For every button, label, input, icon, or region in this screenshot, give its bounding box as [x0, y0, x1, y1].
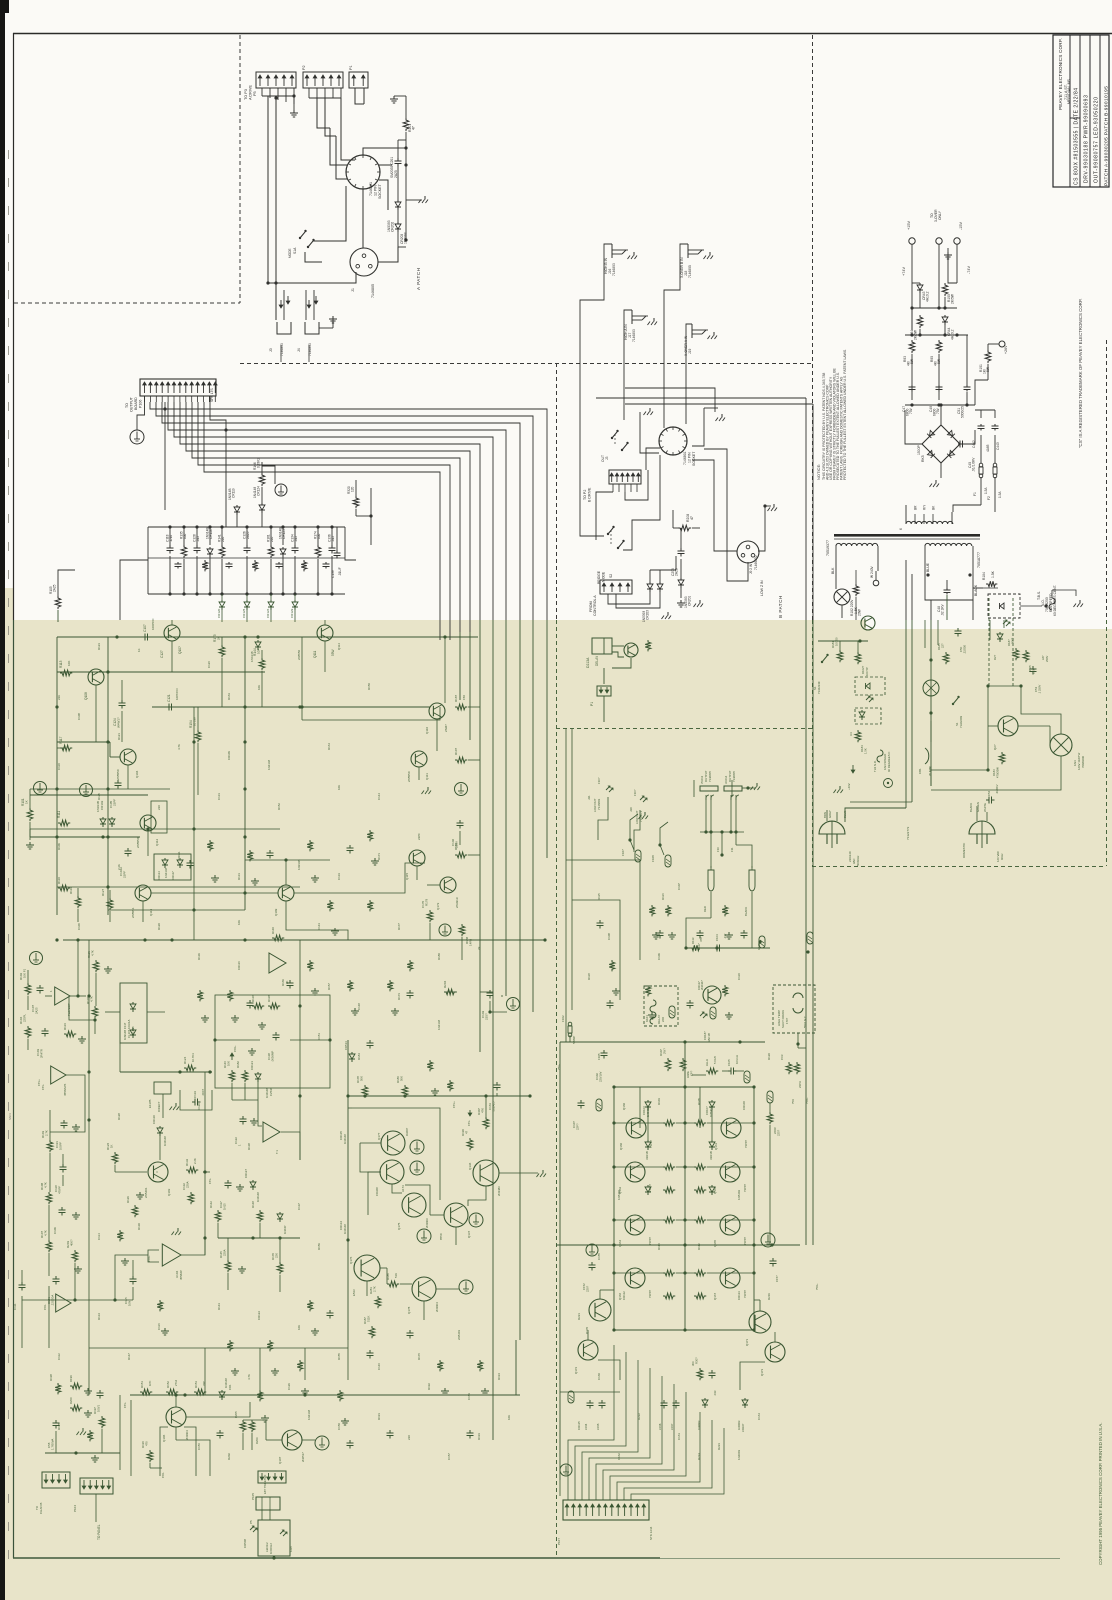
svg-text:Q103: Q103	[167, 1188, 171, 1196]
svg-text:C151: C151	[317, 1033, 321, 1040]
svg-text:Q107: Q107	[278, 1456, 282, 1464]
svg-text:2A25: 2A25	[35, 1007, 39, 1014]
resistor R184b	[855, 730, 861, 742]
ground arrow at J19	[713, 332, 715, 336]
wire P1 stub down	[603, 696, 605, 722]
svg-text:CR102: CR102	[100, 800, 104, 810]
svg-text:Q111: Q111	[313, 650, 317, 658]
ground fan left	[839, 786, 841, 790]
svg-text:220A: 220A	[186, 1181, 190, 1188]
svg-text:R105: R105	[1028, 665, 1032, 672]
wire +15 rail down	[911, 244, 913, 330]
svg-text:R143: R143	[217, 1303, 221, 1310]
svg-text:22K: 22K	[57, 695, 61, 700]
capacitor C140	[459, 820, 461, 823]
svg-text:.015: .015	[331, 536, 335, 542]
ground arrow left cluster	[82, 1428, 84, 1432]
ground arrow at J18	[709, 252, 711, 256]
resistor R148	[257, 1210, 263, 1222]
wires into plug 1	[826, 810, 828, 821]
svg-text:R119: R119	[757, 943, 761, 950]
svg-text:R204: R204	[443, 980, 447, 988]
svg-text:C107: C107	[677, 883, 681, 890]
wire R208 leads	[673, 527, 678, 529]
resistor R93 4K/5W	[909, 340, 915, 353]
resistor R196 470	[147, 1450, 153, 1462]
svg-text:220: 220	[407, 1435, 411, 1440]
op-amp U104	[162, 1244, 181, 1266]
svg-text:CB1: CB1	[918, 768, 922, 774]
mid vertical x245	[244, 637, 246, 910]
diode block CL107	[120, 983, 147, 1043]
transformer core bar	[834, 534, 980, 537]
wires Q136 Q137	[468, 1186, 486, 1206]
long rail y1245	[556, 1244, 800, 1246]
svg-text:K101: K101	[645, 1015, 649, 1022]
svg-text:F2: F2	[987, 496, 991, 500]
svg-text:R163: R163	[227, 693, 231, 700]
svg-text:470PF: 470PF	[58, 1185, 62, 1194]
svg-text:1N4148: 1N4148	[163, 1136, 167, 1146]
ground under R101	[29, 842, 31, 845]
svg-text:1N4003: 1N4003	[737, 1449, 741, 1460]
svg-text:30K?: 30K?	[1011, 637, 1015, 644]
ground below connector bundle	[293, 96, 295, 110]
transistor Q103 driver	[148, 1162, 168, 1182]
svg-text:50K: 50K	[400, 1076, 404, 1081]
svg-text:73P8?: 73P8?	[648, 1236, 652, 1245]
wire jacks down to socket area	[580, 244, 612, 418]
svg-text:+26V: +26V	[1004, 345, 1008, 354]
svg-text:R138: R138	[247, 1143, 251, 1150]
resistor R182b	[855, 652, 861, 664]
svg-text:5 AMP: 5 AMP	[572, 1036, 576, 1044]
svg-text:71322772: 71322772	[906, 826, 910, 840]
ground right of R115	[107, 966, 109, 969]
svg-text:7146805: 7146805	[708, 771, 712, 782]
svg-text:C2536: C2536	[269, 1087, 273, 1096]
transistor Q173b	[765, 1342, 785, 1362]
resistor R185c	[943, 652, 949, 664]
wires right cluster	[436, 719, 438, 751]
svg-text:.247: .247	[723, 933, 727, 939]
svg-text:R219: R219	[767, 1293, 771, 1300]
block E117 DIRECT	[154, 1082, 171, 1094]
svg-text:J9 2 IN: J9 2 IN	[749, 563, 753, 574]
dashed separator vertical A-patch left	[239, 35, 241, 303]
svg-text:R150: R150	[367, 683, 371, 690]
crossover top rail	[148, 526, 345, 528]
wire XLR loop to socket	[692, 460, 737, 551]
jack HIGH A IN J17	[632, 315, 648, 317]
capacitor C159	[711, 1370, 713, 1373]
terminal -15V	[954, 238, 960, 244]
svg-text:R184: R184	[982, 572, 986, 580]
svg-text:20W: 20W	[858, 608, 862, 616]
svg-text:15V+: 15V+	[233, 1045, 237, 1052]
svg-text:C105: C105	[727, 1059, 731, 1066]
svg-text:10.7K1: 10.7K1	[191, 1053, 195, 1062]
capacitor C442 4A83	[980, 424, 982, 426]
svg-text:R155: R155	[337, 1353, 341, 1360]
transistor Q178	[412, 1277, 436, 1301]
wires CB1	[930, 721, 932, 742]
resistor R183 dropper	[853, 584, 859, 596]
svg-text:CR124: CR124	[257, 486, 261, 496]
svg-text:CHAN B: CHAN B	[39, 1503, 43, 1514]
resistor R204	[444, 989, 456, 995]
svg-text:J3: J3	[269, 348, 273, 352]
svg-text:70518777: 70518777	[977, 552, 981, 568]
svg-text:CR107: CR107	[741, 1423, 745, 1432]
test point below Q175	[417, 1229, 431, 1243]
ground at C117b	[239, 1184, 241, 1187]
svg-text:F11: F11	[730, 847, 734, 852]
wire CR43-R100 row	[912, 282, 920, 284]
svg-text:C129: C129	[287, 1383, 291, 1390]
diode CR203b 1N5393	[649, 582, 651, 584]
op-amp U102A	[51, 1066, 66, 1084]
svg-text:8550: 8550	[439, 1233, 443, 1240]
svg-text:2N3486: 2N3486	[497, 1186, 501, 1196]
svg-text:2W?: 2W?	[663, 1048, 667, 1054]
svg-text:7146801: 7146801	[683, 451, 687, 465]
resistor R117	[60, 745, 72, 751]
svg-text:P5: P5	[253, 91, 257, 96]
svg-text:120: 120	[351, 486, 355, 492]
svg-text:SOCKET: SOCKET	[378, 183, 382, 199]
channel B cap scatter upper	[599, 920, 601, 923]
svg-text:F108: F108	[651, 855, 655, 862]
svg-text:1N15: 1N15	[223, 1203, 227, 1210]
svg-text:1N4148: 1N4148	[343, 1134, 347, 1144]
resistor R197	[99, 1416, 105, 1428]
svg-text:CR129: CR129	[290, 608, 294, 618]
svg-text:C53: C53	[1034, 686, 1038, 692]
transistor Q171 lower right	[749, 1311, 771, 1333]
svg-text:2A25: 2A25	[394, 170, 398, 178]
svg-text:4558AP: 4558AP	[179, 1270, 183, 1280]
channel A vertical x205	[204, 1072, 206, 1255]
high temp shutdown dashed box	[773, 985, 815, 1033]
svg-text:CR514: CR514	[344, 1041, 348, 1050]
capacitor C58	[55, 1420, 57, 1423]
wire box around socket	[625, 388, 715, 412]
wires secondary left	[835, 546, 837, 560]
svg-text:7146805: 7146805	[371, 284, 375, 298]
opto U3 dashed box	[855, 708, 881, 724]
resistor R320 120	[353, 496, 359, 508]
fuse F1 1.5A	[979, 463, 983, 467]
dashed separator horizontal under A-patch	[240, 363, 812, 365]
svg-text:P5: P5	[249, 1520, 253, 1524]
svg-text:Q175: Q175	[397, 1222, 401, 1230]
fuse F108 with pill	[658, 843, 661, 846]
svg-text:R153: R153	[194, 1381, 198, 1388]
ground at C109	[75, 1212, 77, 1215]
channel A vertical x89	[88, 940, 90, 1348]
svg-text:Q115: Q115	[405, 873, 409, 880]
terminal circle right	[761, 1233, 775, 1247]
svg-text:75V: 75V	[791, 1099, 795, 1104]
svg-text:1.5K: 1.5K	[864, 748, 868, 754]
svg-text:CR106: CR106	[742, 1101, 746, 1110]
channel A mid-right resistor pair R136 R118	[252, 1003, 264, 1009]
thermal switch arcs	[793, 993, 803, 998]
wires secondary right	[924, 546, 926, 558]
svg-text:Q114: Q114	[337, 643, 341, 650]
connector output board B	[563, 1500, 649, 1520]
resistor R146	[229, 1070, 235, 1082]
svg-text:BLACK: BLACK	[974, 584, 978, 596]
relay coil	[650, 1000, 656, 1012]
svg-text:NOTICE:: NOTICE:	[816, 464, 821, 480]
capacitor C443 4A83	[994, 424, 996, 426]
svg-text:10PFCO: 10PFCO	[175, 688, 179, 700]
svg-text:75V: 75V	[936, 407, 940, 414]
wire bundle to socket area	[317, 98, 330, 128]
svg-text:2N6517: 2N6517	[301, 1452, 305, 1462]
svg-text:STK 1244: STK 1244	[649, 1526, 653, 1540]
diode CR121	[257, 1072, 259, 1074]
svg-text:100PF: 100PF	[59, 1141, 63, 1150]
svg-text:10K P1: 10K P1	[23, 968, 27, 978]
svg-text:RK5: RK5	[921, 455, 925, 462]
svg-text:.01 6KV: .01 6KV	[995, 784, 999, 794]
svg-text:P1: P1	[590, 702, 594, 706]
resistor R95 4K/5W	[936, 340, 942, 353]
component D213A	[592, 638, 612, 654]
extra grounds scatter channel A	[214, 875, 216, 878]
svg-text:Q111: Q111	[425, 773, 429, 780]
svg-text:.02 1KV: .02 1KV	[941, 603, 945, 616]
ground at socket B	[721, 414, 723, 418]
jack J4 7146803	[308, 300, 310, 308]
capacitor C138	[275, 1032, 277, 1035]
resistor R183c 470 20W	[999, 752, 1005, 764]
wire Q201 to P1 pin	[612, 658, 631, 668]
svg-text:75V+: 75V+	[815, 1283, 819, 1290]
resistor R182	[242, 1070, 248, 1082]
bus drop wires continue green into channel B	[805, 620, 807, 1032]
zener CR45	[1000, 603, 1005, 609]
svg-text:R171: R171	[377, 853, 381, 860]
svg-text:C131: C131	[217, 793, 221, 800]
svg-text:Q176: Q176	[349, 1256, 353, 1264]
svg-text:2.7K: 2.7K	[373, 1286, 377, 1292]
svg-text:CR113: CR113	[737, 1291, 741, 1300]
svg-text:1N5402: 1N5402	[617, 1189, 621, 1200]
svg-text:.022A25: .022A25	[492, 1101, 496, 1112]
connector TO P2 B DRIVE	[609, 470, 641, 484]
center vertical channel B	[684, 1042, 686, 1330]
svg-text:15V+: 15V+	[452, 1101, 456, 1108]
jack stub wires to dashed boundary A patch	[280, 345, 282, 362]
svg-text:R118: R118	[587, 973, 591, 980]
svg-text:CR109: CR109	[227, 751, 231, 760]
terminal bottom left	[560, 1464, 572, 1476]
ground arrow at J16	[633, 252, 635, 256]
test point at Q177	[410, 1140, 424, 1154]
svg-text:C157: C157	[447, 1453, 451, 1460]
transistor Q103a	[88, 669, 104, 685]
svg-text:2K/5W: 2K/5W	[951, 293, 955, 304]
svg-text:C155: C155	[597, 1253, 601, 1260]
svg-text:Q106: Q106	[162, 1434, 166, 1442]
svg-text:2N3904: 2N3904	[435, 1302, 439, 1312]
svg-text:L87: L87	[1041, 655, 1045, 660]
terminal W240V	[873, 580, 879, 586]
svg-text:C111: C111	[13, 1303, 17, 1310]
svg-text:2N5401: 2N5401	[457, 1329, 461, 1340]
svg-text:DOMESTIC: DOMESTIC	[962, 843, 966, 858]
svg-text:F10: F10	[716, 847, 720, 852]
svg-text:60Hz: 60Hz	[1000, 853, 1004, 860]
svg-text:C153: C153	[467, 1393, 471, 1400]
resistors on rail R151 R152 R153	[140, 1389, 152, 1395]
svg-text:"CS" IS A REGISTERED TRADEMARK: "CS" IS A REGISTERED TRADEMARK OF PEAVEY…	[1078, 299, 1083, 448]
svg-text:Q171: Q171	[745, 1339, 749, 1346]
svg-text:GREY: GREY	[828, 810, 832, 818]
title block outer box	[1053, 35, 1109, 187]
test point right of Q137	[469, 1213, 483, 1227]
svg-text:C50: C50	[959, 646, 963, 652]
wires U101 area	[45, 995, 52, 997]
channel A rail y789	[30, 788, 170, 790]
resistor R200 h	[70, 1405, 82, 1411]
terminal +15V	[909, 238, 915, 244]
wires into connector sides	[559, 1480, 561, 1496]
svg-text:R110: R110	[57, 877, 61, 884]
wire socket bottom to XLR	[362, 189, 364, 248]
wire fuse F102 to rail	[569, 1035, 571, 1042]
svg-text:R193: R193	[477, 1433, 481, 1440]
svg-text:C108: C108	[77, 713, 81, 720]
op-amp U102B	[56, 1294, 71, 1312]
svg-text:CR202: CR202	[391, 222, 395, 232]
triac Q2 fan control	[998, 716, 1018, 736]
svg-text:BOARD: BOARD	[134, 397, 138, 410]
svg-text:2.2K: 2.2K	[193, 1158, 197, 1164]
svg-text:C150: C150	[337, 1423, 341, 1430]
pill at rail right	[759, 936, 765, 948]
long rail y1395	[130, 1394, 520, 1396]
wires socket pins left	[330, 128, 347, 165]
svg-text:COPYRIGHT 1995 PEAVEY ELECTRON: COPYRIGHT 1995 PEAVEY ELECTRONICS CORP. …	[1098, 1423, 1103, 1565]
svg-text:R129: R129	[126, 1196, 130, 1203]
wire temp box down	[797, 1033, 799, 1048]
svg-text:Q164: Q164	[618, 1240, 622, 1247]
transistor Q172b	[578, 1340, 598, 1360]
svg-text:C109: C109	[53, 1227, 57, 1234]
box outline around Q112	[151, 801, 167, 833]
capacitor C111 far left	[21, 1282, 23, 1285]
channel A rail y887	[57, 886, 300, 888]
resistor R107b	[455, 757, 467, 763]
svg-text:C155: C155	[596, 1423, 600, 1430]
svg-text:1N4148: 1N4148	[256, 1192, 260, 1202]
svg-text:3AC1B: 3AC1B	[707, 1033, 711, 1042]
relay K101 dashed box	[644, 986, 678, 1026]
wires triac	[988, 725, 998, 727]
svg-text:C156: C156	[658, 1423, 662, 1430]
svg-text:10/150: 10/150	[835, 637, 839, 646]
svg-text:R194: R194	[497, 1373, 501, 1380]
resistor R187	[455, 704, 467, 710]
wire links lower left	[48, 1286, 50, 1348]
svg-text:2R4TR: 2R4TR	[40, 1049, 44, 1058]
diode cluster bottom caps	[589, 1400, 591, 1403]
svg-text:+74V: +74V	[902, 267, 906, 276]
svg-text:F105: F105	[597, 1053, 601, 1060]
svg-text:BRN: BRN	[823, 812, 827, 818]
ground mid right	[251, 1048, 253, 1051]
svg-text:CR201: CR201	[688, 596, 692, 606]
terminal -15V regulator mid	[936, 238, 942, 244]
svg-text:C143: C143	[317, 923, 321, 930]
channel A long rail y1348	[89, 1347, 348, 1349]
svg-text:2A25: 2A25	[53, 584, 57, 592]
svg-text:7146803: 7146803	[632, 329, 636, 342]
svg-text:R200: R200	[69, 1397, 73, 1404]
long wire from B patch down	[559, 1042, 561, 1480]
wires P5 to LED box	[261, 1510, 263, 1520]
svg-text:4.7K: 4.7K	[44, 1182, 48, 1188]
zener dashed box	[988, 594, 1020, 618]
capacitor C118	[62, 1164, 64, 1167]
svg-text:Q137: Q137	[467, 1231, 471, 1238]
svg-text:7146805: 7146805	[732, 771, 736, 782]
resistor pair R205 R206	[240, 1420, 246, 1432]
resistor R105 left edge	[55, 596, 61, 609]
svg-text:2N5401: 2N5401	[144, 1187, 148, 1198]
channel A rail y910	[108, 909, 245, 911]
diode CR104 on rail	[257, 640, 259, 642]
dashed separator horizontal B-patch bottom	[556, 728, 812, 730]
resistor R179	[427, 910, 433, 922]
svg-text:C109: C109	[657, 953, 661, 960]
svg-text:R130: R130	[137, 1223, 141, 1230]
resistor R108b A48E	[680, 1058, 686, 1071]
svg-text:220?: 220?	[586, 1285, 590, 1292]
test point right of Q107b	[315, 1436, 329, 1450]
svg-text:CR111: CR111	[177, 851, 181, 860]
svg-text:22PF: 22PF	[417, 833, 421, 840]
svg-text:15V-: 15V-	[161, 1472, 165, 1478]
speaker fuse F103 bullet	[708, 870, 714, 891]
svg-text:ALLA: ALLA	[705, 1059, 709, 1066]
wire Q109 collector bus	[286, 901, 348, 940]
svg-text:DELAY: DELAY	[595, 655, 599, 666]
svg-text:U3: U3	[849, 732, 853, 736]
svg-text:C112: C112	[57, 1353, 61, 1360]
capacitor C47 6800/75V	[911, 385, 913, 387]
junction dot row under jacks	[700, 831, 744, 833]
wire socket top to R201 rail	[363, 148, 397, 155]
svg-text:470: 470	[145, 1441, 149, 1446]
svg-text:OUT-99080757 LED-93050220: OUT-99080757 LED-93050220	[1094, 96, 1100, 183]
capacitor C52 6KV	[986, 799, 989, 801]
lamp circle mid	[923, 680, 939, 696]
wire y1453	[45, 1452, 120, 1454]
wire left edge feed	[58, 570, 75, 582]
svg-text:E117B: E117B	[148, 1099, 152, 1108]
svg-text:R117: R117	[697, 943, 701, 950]
capacitor C105 inductor	[728, 1070, 731, 1072]
svg-text:60 DEGREES C: 60 DEGREES C	[887, 752, 891, 772]
wire bus drops to LED area	[924, 620, 926, 648]
svg-text:R118: R118	[267, 995, 271, 1002]
